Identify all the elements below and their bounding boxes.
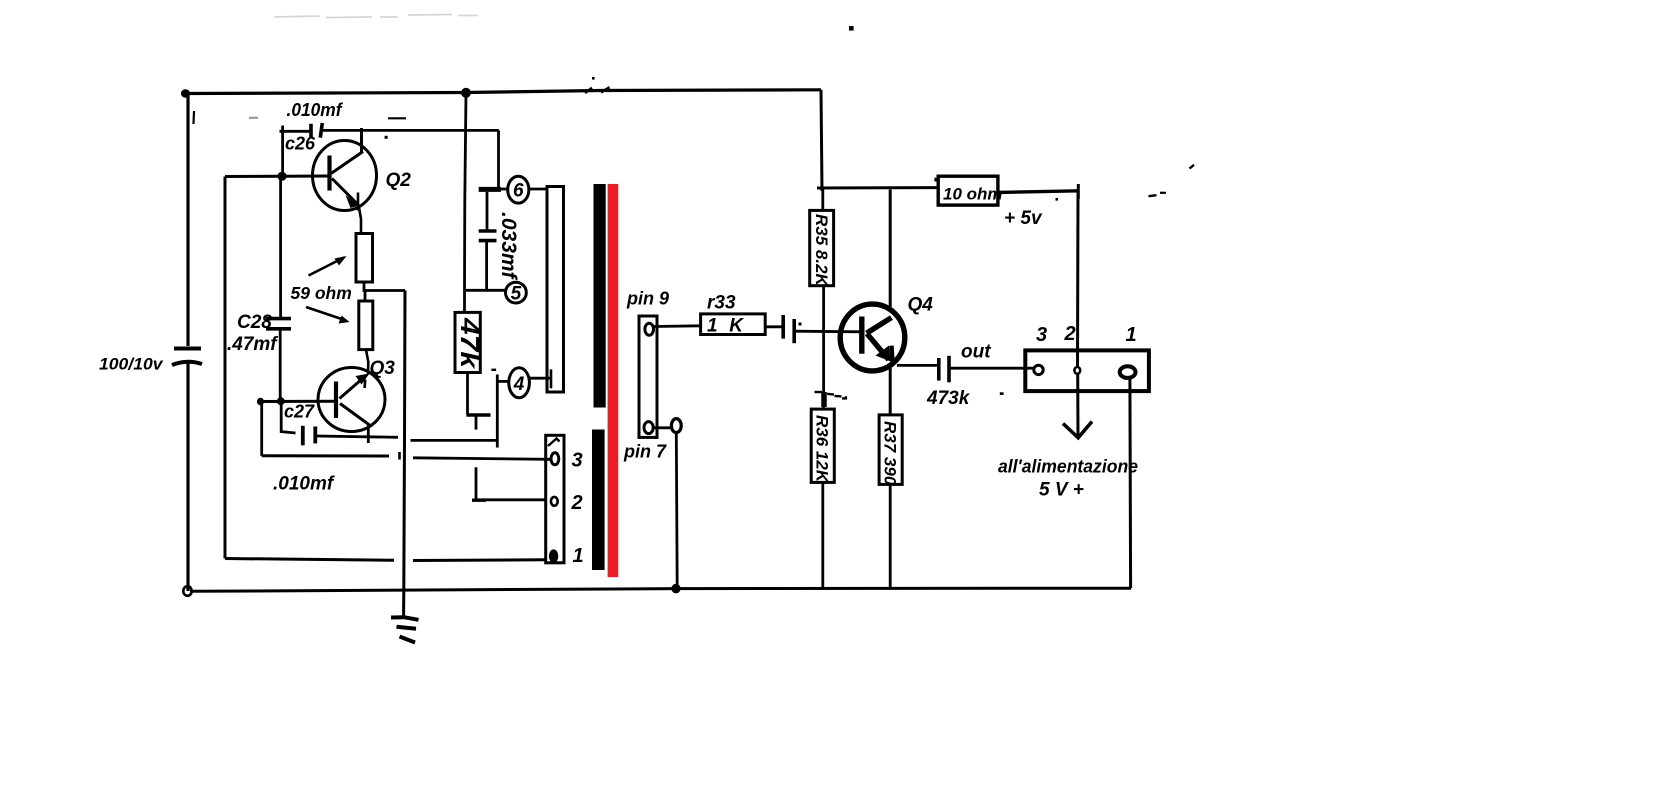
- svg-text:3: 3: [1036, 324, 1047, 346]
- wire pin4 left: [498, 380, 510, 383]
- resistor 47k: [455, 312, 480, 372]
- mark grey streaks top: [274, 15, 478, 18]
- wire 47k T bar: [466, 413, 490, 416]
- svg-text:.033mf: .033mf: [497, 212, 520, 281]
- svg-text:r33: r33: [707, 293, 736, 314]
- node top-left blob: [181, 89, 190, 97]
- wire bottom rail: [190, 588, 1131, 591]
- connector 3-2-1 body: [546, 435, 564, 563]
- mark tick below out wire: [1000, 392, 1004, 395]
- svg-text:.47mf: .47mf: [227, 334, 278, 355]
- wire +5v rail right part: [998, 191, 1079, 193]
- ground: [391, 617, 419, 642]
- wire Q4 collector up: [889, 190, 892, 308]
- wire inner frame left: [224, 177, 227, 559]
- node junction bottom rail: [671, 584, 680, 594]
- wire 47k top lead: [463, 290, 466, 312]
- wire 47k stub: [475, 415, 478, 430]
- mark dashes near +5v corner: [1149, 195, 1157, 196]
- wire lower horizontal to pin3 jog left: [262, 454, 389, 457]
- wire Q4 emitter out: [897, 364, 938, 367]
- svg-text:1: 1: [1126, 324, 1137, 346]
- node junction top rail: [461, 88, 471, 98]
- pin 5: [506, 282, 527, 304]
- transformer black bar bottom: [592, 430, 605, 571]
- resistor R36: [811, 409, 834, 482]
- wire pin6 right: [530, 188, 549, 191]
- mark dot near Q2: [385, 136, 388, 139]
- wire drop x498: [497, 130, 500, 189]
- wire c27 branch: [281, 401, 295, 433]
- capacitor c26: [280, 123, 323, 176]
- pin 6: [508, 176, 529, 203]
- wire +5v corner overshoot: [1077, 184, 1080, 199]
- out connector body: [1025, 350, 1149, 391]
- arrow head: [1063, 422, 1092, 438]
- svg-text:3: 3: [572, 450, 583, 472]
- connector inner tick: [548, 439, 560, 447]
- wire inner frame top: [225, 175, 282, 178]
- resistor 59ohm upper: [356, 234, 373, 283]
- svg-text:6: 6: [513, 181, 524, 202]
- transistor Q4: [840, 304, 905, 371]
- wire Q3 base node down to c27: [260, 402, 263, 456]
- wire R36 bottom lead: [821, 482, 824, 589]
- wire cap to out pin3: [951, 367, 1034, 370]
- svg-text:59 ohm: 59 ohm: [291, 283, 352, 303]
- mark tick on 10ohm box: [934, 178, 936, 182]
- wire 47k bottom lead: [466, 373, 469, 415]
- svg-text:10 ohm: 10 ohm: [943, 185, 1003, 204]
- svg-text:c26: c26: [285, 134, 316, 154]
- svg-text:47k: 47k: [455, 317, 485, 370]
- svg-text:2: 2: [571, 492, 583, 514]
- wire Q4 collector down: [889, 368, 892, 415]
- resistor 59ohm lower: [359, 301, 373, 350]
- wire pin9 to r33: [654, 324, 701, 328]
- transformer black bar top: [594, 184, 606, 408]
- svg-text:4: 4: [513, 374, 525, 395]
- mark stray square top: [849, 26, 854, 31]
- resistor R35: [810, 210, 834, 285]
- pin 1 terminal: [550, 551, 557, 562]
- mark dot right of 10ohm: [1056, 198, 1059, 201]
- wire inner frame bottom to pin 1: [225, 559, 394, 561]
- wire C28 branch down from Q2 base node: [279, 176, 282, 317]
- wire center long vertical: [404, 291, 405, 617]
- capacitor 473k: [939, 356, 949, 383]
- wire segment right of center vertical: [411, 439, 498, 442]
- wire top rail: [184, 90, 821, 94]
- wire Q3 base: [259, 400, 336, 403]
- svg-text:100/10v: 100/10v: [99, 355, 164, 374]
- wire resistor junction: [364, 282, 405, 291]
- transistor Q3: [318, 368, 385, 444]
- svg-text:R37 390: R37 390: [881, 421, 900, 486]
- wire pin7 to terminal: [653, 426, 671, 429]
- wire top-right drop: [821, 90, 822, 191]
- connector pin9/pin7 body: [639, 316, 657, 437]
- wire pin6 thick bar: [479, 187, 501, 192]
- transistor Q2: [313, 128, 377, 234]
- svg-text:2: 2: [1064, 323, 1076, 345]
- pin 3 terminal: [551, 453, 559, 465]
- svg-text:5: 5: [511, 284, 522, 305]
- wire pin4 vertical drop: [496, 375, 499, 448]
- wire pin1 down to bottom rail: [1128, 378, 1132, 588]
- wire arrow to alimentazione: [1076, 374, 1079, 438]
- wire r33 to cap: [765, 325, 782, 328]
- capacitor 100/10v: [172, 349, 202, 366]
- wire left rail: [186, 94, 189, 347]
- wire left rail lower: [186, 363, 189, 591]
- svg-text:R35 8.2K: R35 8.2K: [812, 214, 831, 288]
- wire to pin6: [501, 188, 508, 191]
- svg-text:5 V +: 5 V +: [1039, 480, 1084, 501]
- capacitor .033mf: [479, 192, 497, 290]
- svg-text:R36 12K: R36 12K: [813, 415, 832, 484]
- out pin 2 terminal: [1074, 367, 1080, 374]
- svg-text:473k: 473k: [926, 388, 971, 409]
- svg-text:Q4: Q4: [908, 295, 934, 316]
- svg-text:Q2: Q2: [386, 170, 412, 191]
- svg-text:c27: c27: [284, 402, 315, 422]
- resistor R37: [879, 415, 902, 485]
- wire to connector pin 3: [413, 458, 550, 460]
- mark grey dash left of .010mf: [249, 117, 258, 119]
- wire C28 to Q3 base node: [279, 330, 282, 401]
- out pin 3 terminal: [1034, 365, 1043, 374]
- svg-text:+ 5v: + 5v: [1004, 208, 1043, 229]
- svg-text:.010mf: .010mf: [287, 100, 344, 120]
- mark dash left of pin4: [491, 369, 496, 371]
- pin 2 terminal: [551, 497, 558, 506]
- svg-text:1 K: 1 K: [707, 316, 744, 337]
- wire c26 to transformer: [323, 129, 499, 132]
- wire pin2 branch: [476, 467, 546, 500]
- pin 7 terminal: [644, 422, 653, 434]
- wire R35 to base junction and down: [822, 286, 825, 409]
- pin 4: [509, 368, 530, 398]
- wire into lower resistor: [364, 291, 367, 302]
- svg-text:pin 9: pin 9: [626, 289, 669, 309]
- wire x465 vertical from top junction: [465, 93, 467, 290]
- wire R37 bottom lead: [889, 484, 892, 588]
- svg-text:out: out: [961, 342, 991, 363]
- capacitor coupling Q4: [783, 315, 794, 343]
- resistor 10ohm box: [938, 176, 998, 205]
- wire +5v rail left part: [817, 186, 938, 189]
- mark dot near cap: [799, 323, 802, 326]
- transformer red bar: [608, 184, 619, 577]
- pin 9 terminal: [645, 323, 654, 335]
- wire +5v drop to pin 2: [1076, 191, 1080, 367]
- resistor r33: [701, 314, 766, 335]
- wire Q2 base: [282, 175, 330, 178]
- wire pin4 right tick: [550, 369, 553, 388]
- wire R35 top lead: [821, 188, 824, 210]
- out pin 1 terminal: [1120, 366, 1136, 378]
- wire small tick beside left rail: [192, 111, 195, 124]
- wire cap to Q4 base: [795, 330, 862, 333]
- wire terminal down to bottom rail: [675, 433, 679, 589]
- capacitor C28: [266, 319, 291, 329]
- svg-text:all'alimentazione: all'alimentazione: [998, 457, 1138, 477]
- arrow to lower 59ohm: [306, 307, 350, 324]
- capacitor c27: [303, 426, 316, 446]
- wire lower resistor to Q3: [366, 350, 368, 375]
- node Q3 base left: [257, 398, 264, 406]
- svg-text:C28: C28: [237, 312, 272, 333]
- node Q3 base right: [277, 397, 285, 405]
- node bottom-left open terminal: [183, 586, 191, 596]
- svg-text:Q3: Q3: [370, 358, 396, 379]
- transformer primary bracket: [547, 187, 564, 393]
- node open terminal: [671, 419, 681, 433]
- wire c27 to emitter and right: [317, 436, 398, 437]
- wire to pin 5: [465, 289, 506, 292]
- svg-text:1: 1: [573, 545, 584, 567]
- arrow to upper 59ohm: [309, 256, 347, 276]
- mark dash above c26 wire: [388, 117, 406, 119]
- svg-text:.010mf: .010mf: [273, 474, 335, 495]
- node base junction Q2: [277, 172, 286, 181]
- wire jog mark: [398, 452, 401, 460]
- wire pin4 right: [530, 377, 552, 380]
- svg-text:pin 7: pin 7: [623, 442, 667, 462]
- mark scribble above R36: [815, 392, 846, 407]
- mark ticks on top rail: [585, 88, 592, 93]
